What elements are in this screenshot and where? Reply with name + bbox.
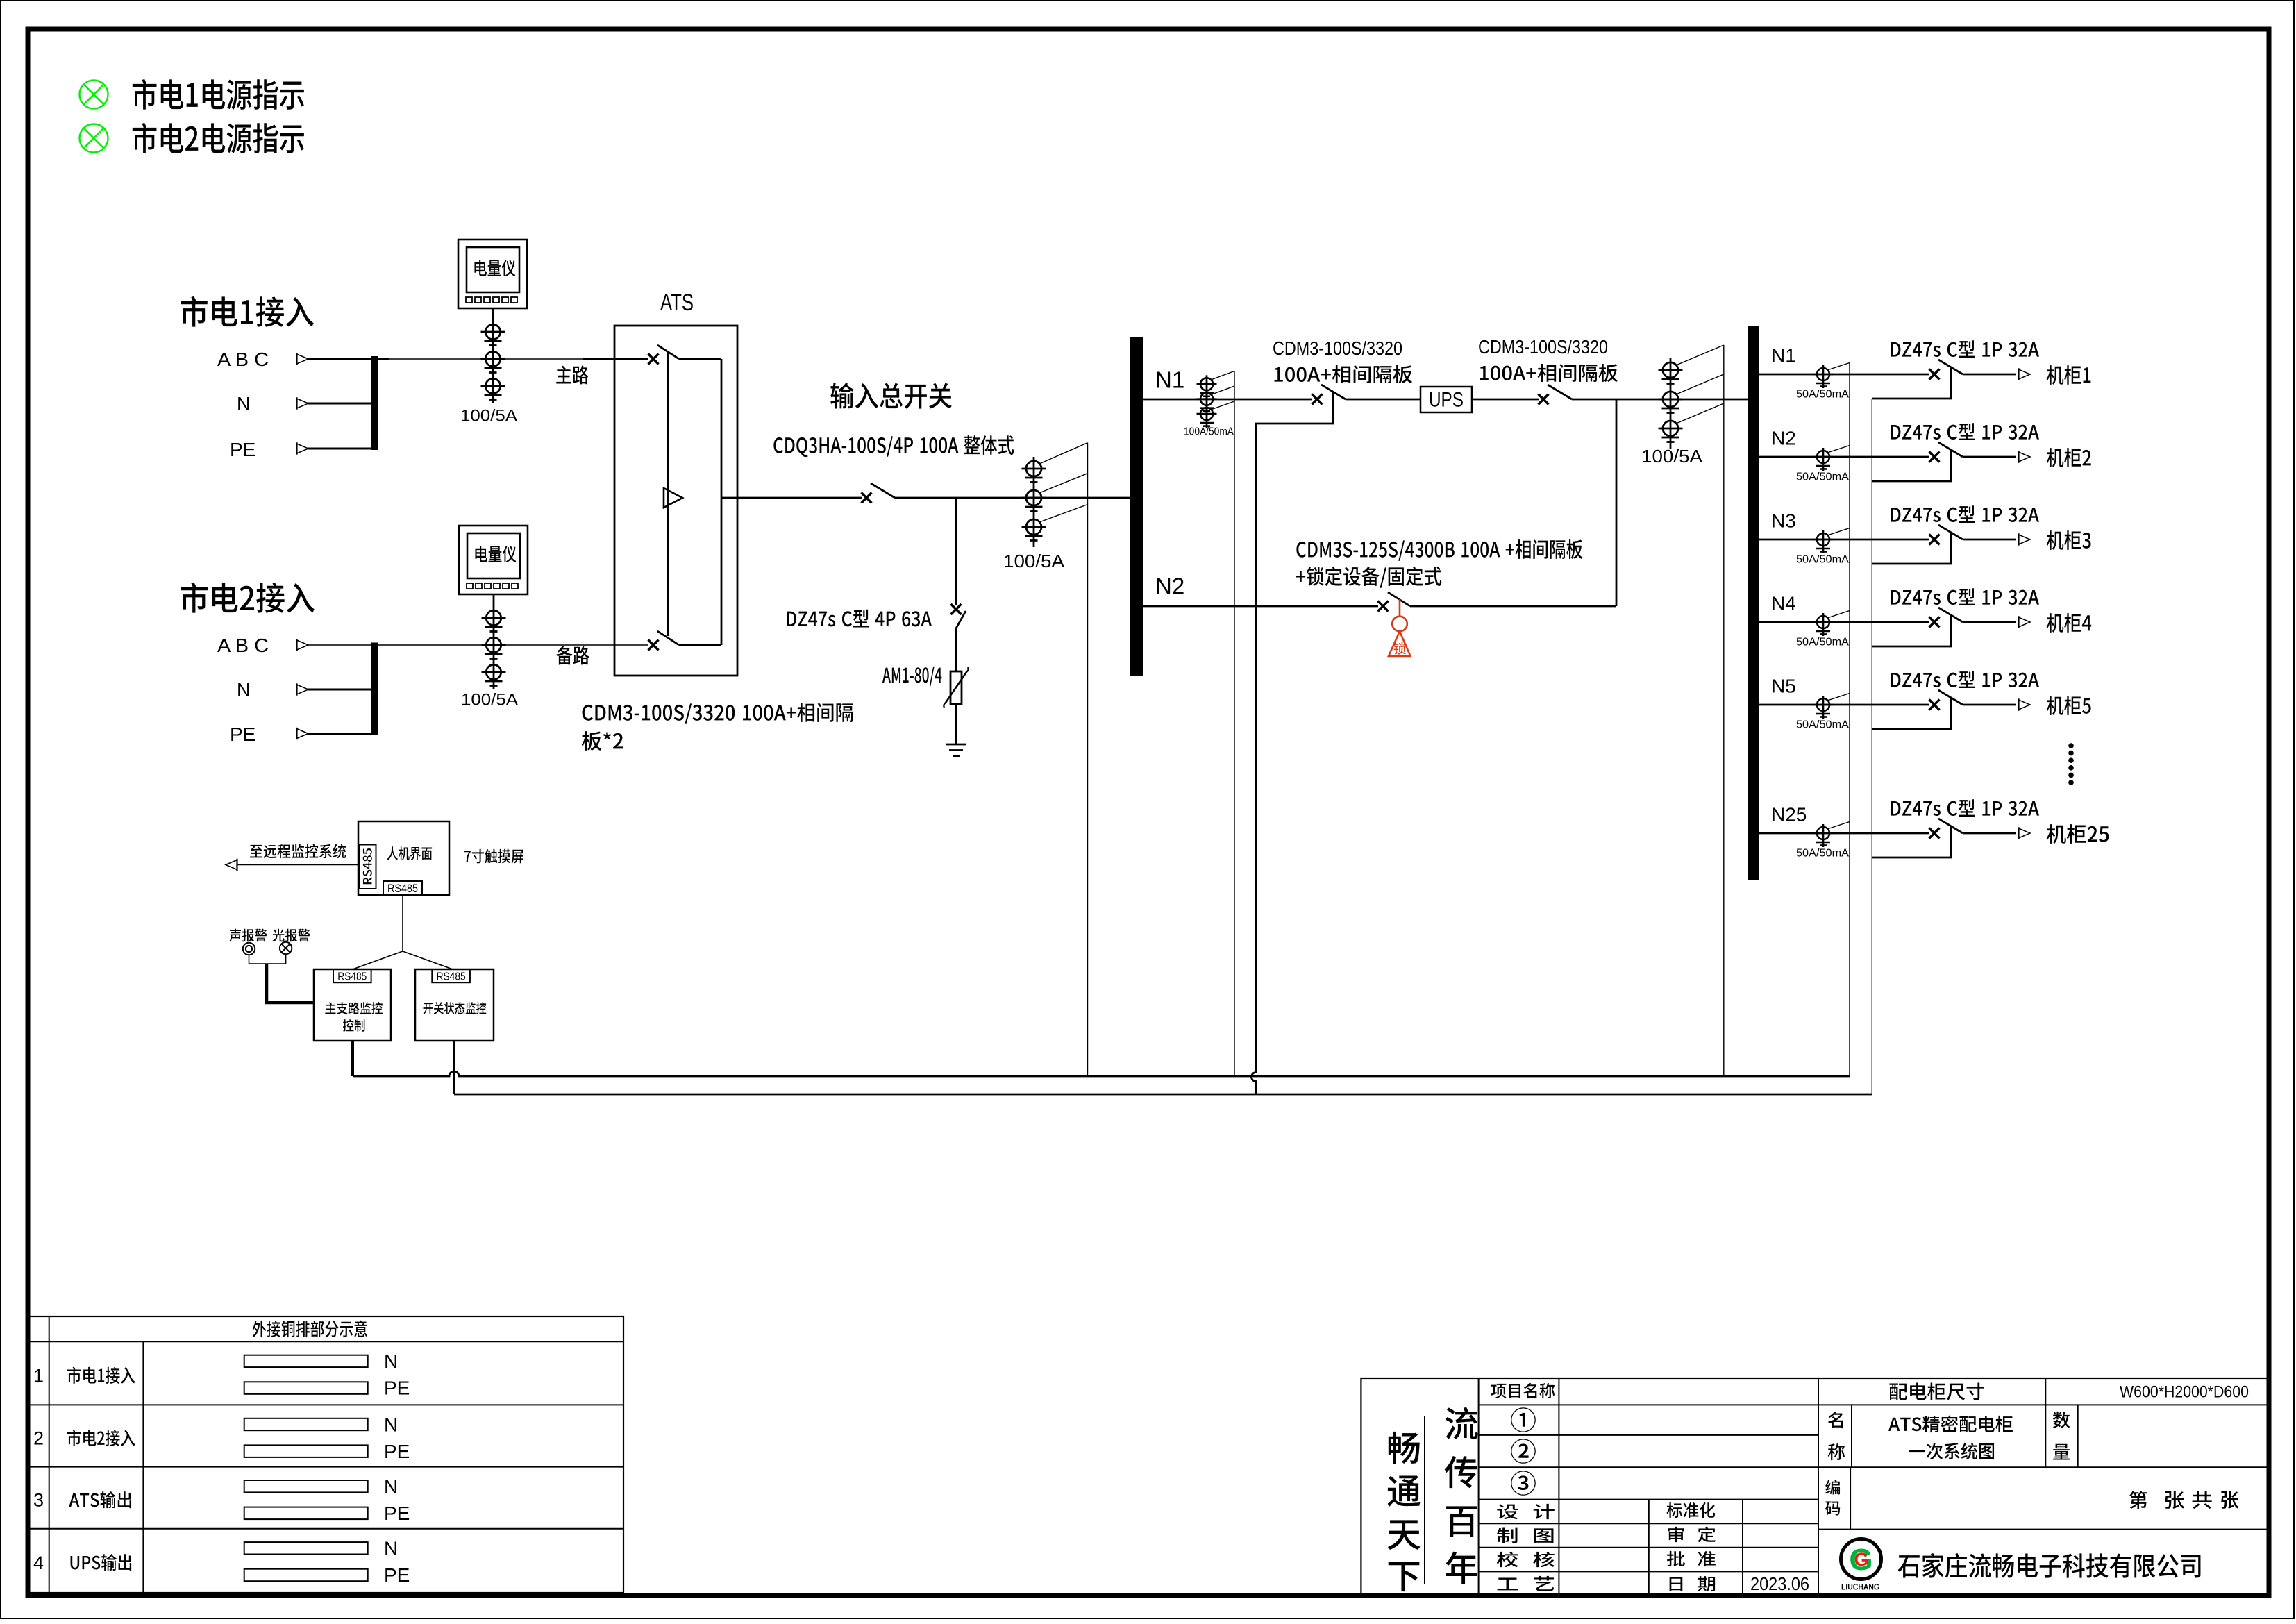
- power meter PM2: [459, 526, 528, 594]
- label TA5 100/5A: [1641, 446, 1703, 467]
- wire mains-2 to ATS: [378, 644, 648, 646]
- arrow branch N25 out: [2019, 827, 2031, 839]
- label branch N5: [1771, 675, 1796, 696]
- wire TA4 secondary down: [1234, 371, 1235, 1077]
- label mains-2 incoming: [181, 583, 315, 613]
- CT group TA4 100A/50mA: [1197, 375, 1217, 428]
- switch status monitor box: [415, 969, 494, 1041]
- bus bar section 1: [1130, 337, 1143, 676]
- wire sound alarm stem: [249, 955, 250, 964]
- label main input switch: [830, 383, 952, 408]
- CT TA3 secondary taps: [1039, 443, 1088, 522]
- table row label ATS输出: [69, 1491, 131, 1508]
- title vline size divider: [2045, 1378, 2046, 1405]
- svg-text:1: 1: [33, 1365, 44, 1386]
- copper bar N row 4: [244, 1542, 368, 1554]
- wire monitoring bus line2: [454, 1094, 1872, 1096]
- label RS485 monitor-1: [337, 971, 367, 982]
- RCBO CT branch N2 50A/50mA: [1813, 448, 1834, 471]
- label N input-1: [237, 394, 251, 415]
- CT tap branch N25: [1827, 822, 1850, 830]
- table copper-bar outer: [28, 1316, 623, 1593]
- svg-text:100/5A: 100/5A: [1641, 446, 1703, 467]
- light alarm symbol: [280, 942, 292, 954]
- wire branch N1: [1759, 374, 1929, 376]
- wire TA5 secondary down: [1723, 345, 1725, 1076]
- arrow to remote monitoring: [226, 859, 237, 871]
- label power meter PM1: [474, 260, 515, 276]
- label date value: [1750, 1573, 1809, 1594]
- table row number 2: [33, 1428, 44, 1449]
- wire mains-1 main segment: [583, 358, 648, 360]
- label light alarm: [273, 929, 310, 942]
- label cabinet 机柜4: [2047, 613, 2092, 633]
- wire branch N3 status drop: [1872, 533, 1951, 564]
- label mains-1 power indicator: [133, 79, 304, 110]
- label PE row 3: [384, 1502, 410, 1524]
- wire N2 line: [1143, 605, 1378, 608]
- label 50A/50mA branch N1: [1796, 389, 1849, 401]
- label cabinet 机柜5: [2047, 696, 2091, 715]
- label ATS cabinet line1: [1888, 1416, 2013, 1432]
- label circled 2: [1511, 1439, 1536, 1464]
- table header label: [253, 1321, 367, 1337]
- svg-text:N5: N5: [1771, 675, 1796, 696]
- svg-text:N2: N2: [1771, 427, 1796, 449]
- ATS switch backup: [648, 631, 722, 651]
- svg-text:N1: N1: [1771, 344, 1796, 366]
- svg-text:ATS: ATS: [660, 290, 694, 316]
- label main path: [556, 366, 588, 385]
- wire N1 feed: [1143, 399, 1312, 401]
- breaker QF N2 CDM3S: [1378, 592, 1411, 612]
- label branch N3: [1771, 510, 1796, 531]
- CT tap branch N1: [1827, 363, 1850, 371]
- svg-text:N: N: [237, 394, 251, 415]
- RCBO CT branch N4 50A/50mA: [1813, 613, 1834, 636]
- RS485 port box bottom: [383, 881, 422, 895]
- table col1 divider: [49, 1316, 50, 1593]
- breaker QF UPS-out CDM3: [1539, 385, 1573, 405]
- title vline right section: [1818, 1378, 1819, 1596]
- label mains-1 incoming: [181, 296, 314, 327]
- label CDM3 breakers in ATS line1: [583, 703, 853, 724]
- title hline draw: [1479, 1547, 1818, 1548]
- table row label UPS输出: [71, 1554, 132, 1571]
- wire branch N4: [1759, 621, 1929, 623]
- svg-text:A B C: A B C: [217, 635, 269, 656]
- label 50A/50mA branch N3: [1796, 554, 1849, 566]
- CT group TA2 100/5A: [482, 610, 506, 689]
- svg-text:50A/50mA: 50A/50mA: [1796, 637, 1849, 648]
- ATS box: [614, 326, 737, 676]
- arrow branch N2 out: [2019, 451, 2031, 462]
- label quantity: [2053, 1412, 2070, 1460]
- wire PE input-2: [308, 733, 375, 735]
- label ATS: [660, 290, 694, 316]
- terminal arrow N input-2: [297, 683, 309, 695]
- CT tap branch N3: [1827, 528, 1850, 536]
- CT TA4 secondary taps: [1211, 371, 1234, 410]
- svg-text:50A/50mA: 50A/50mA: [1796, 554, 1849, 566]
- svg-text:50A/50mA: 50A/50mA: [1796, 389, 1849, 401]
- lock device symbol: [1389, 599, 1411, 656]
- title hline r3: [1479, 1466, 2269, 1468]
- label AM1-80/4: [882, 667, 941, 686]
- calligraphy column 1: [1388, 1432, 1421, 1591]
- svg-text:100/5A: 100/5A: [1003, 551, 1065, 571]
- label PE input-2: [230, 723, 255, 745]
- svg-text:N1: N1: [1155, 367, 1184, 393]
- ATS inner right rail: [721, 359, 723, 645]
- wire UPS output: [1472, 399, 1539, 401]
- svg-text:CDM3-100S/3320: CDM3-100S/3320: [1478, 336, 1608, 358]
- RS485 port box monitor-1: [333, 969, 371, 982]
- title hline r1: [1479, 1404, 2269, 1405]
- wire branch status collector: [1871, 399, 1872, 1094]
- label RS485 left: [363, 848, 372, 884]
- wire branch N25 status drop: [1872, 827, 1951, 857]
- copper bar N row 3: [244, 1480, 368, 1492]
- title hline check: [1479, 1571, 1818, 1572]
- label company name: [1898, 1553, 2201, 1578]
- wire HMI fork right: [403, 951, 453, 969]
- calligraphy divider: [1424, 1416, 1425, 1584]
- svg-text:50A/50mA: 50A/50mA: [1796, 719, 1849, 731]
- CT tap branch N2: [1827, 446, 1850, 453]
- wire arrester to ground: [955, 704, 957, 744]
- calligraphy column 2: [1445, 1407, 1478, 1584]
- label check: [1497, 1552, 1555, 1567]
- table header divider: [28, 1341, 623, 1342]
- wire monitoring bus line1: [353, 1071, 1850, 1076]
- breaker DZ47s branch N5: [1929, 690, 1963, 710]
- svg-text:N2: N2: [1155, 574, 1184, 599]
- wire PE input-1: [308, 448, 375, 450]
- label bus N2: [1155, 574, 1184, 599]
- wire branch CT collector: [1849, 363, 1850, 1077]
- breaker DZ47s branch N3: [1929, 525, 1963, 545]
- label sound alarm: [229, 929, 267, 942]
- label UPS: [1429, 389, 1464, 412]
- label CDM3 out line2: [1480, 364, 1618, 382]
- CT group TA3 100/5A on main: [1022, 457, 1046, 547]
- label CDQ3HA-100S/4P 100A: [773, 435, 1014, 457]
- CT TA5 secondary taps: [1676, 345, 1724, 424]
- table row divider: [28, 1404, 623, 1405]
- RCBO CT branch N25 50A/50mA: [1813, 824, 1834, 847]
- title vline calligraphy right: [1478, 1378, 1480, 1596]
- wire branch N5: [1759, 704, 1929, 706]
- wire branch N4 status drop: [1872, 616, 1951, 646]
- label CDM3 breakers in ATS line2: [582, 731, 623, 751]
- title block outer: [1361, 1378, 2269, 1596]
- svg-text:CDM3-100S/3320: CDM3-100S/3320: [1273, 337, 1402, 359]
- svg-text:G: G: [1854, 1549, 1868, 1570]
- surge arrester FV AM1-80/4: [944, 667, 968, 708]
- ground symbol: [946, 744, 966, 756]
- label CDM3S-125S/4300B line1: [1296, 539, 1582, 561]
- title hline r4-left: [1479, 1499, 1818, 1500]
- breaker DZ47s branch N25: [1929, 819, 1963, 839]
- label RS485 bottom: [387, 882, 418, 895]
- CT tap branch N4: [1827, 611, 1850, 619]
- label bus N1: [1155, 367, 1184, 393]
- label TA2 100/5A: [461, 691, 518, 710]
- svg-text:100/5A: 100/5A: [461, 691, 518, 710]
- label power meter PM2: [475, 546, 516, 562]
- title vline name col: [1851, 1405, 1852, 1467]
- label standardize: [1666, 1502, 1715, 1518]
- svg-text:RS485: RS485: [387, 882, 418, 895]
- label circled 3: [1511, 1471, 1536, 1496]
- wire HMI down: [402, 895, 403, 951]
- label main branch monitoring line1: [325, 1002, 383, 1014]
- wire branch N2 status drop: [1872, 451, 1951, 481]
- label DZ47s C 1P 32A branch N3: [1891, 505, 2039, 523]
- label to remote monitoring system: [250, 844, 346, 859]
- company logo: [1841, 1539, 1882, 1592]
- label cabinet 机柜25: [2047, 824, 2109, 844]
- label circled 1: [1511, 1407, 1536, 1432]
- label mains-2 power indicator: [133, 123, 304, 153]
- wire branch N2 out: [1963, 456, 2016, 458]
- RS485 port box left: [360, 845, 376, 889]
- wire to surge arrester: [955, 628, 957, 671]
- svg-text:PE: PE: [384, 1502, 410, 1524]
- breaker DZ47s branch N4: [1929, 608, 1963, 628]
- label DZ47s C 4P 63A: [787, 610, 932, 628]
- svg-text:50A/50mA: 50A/50mA: [1796, 848, 1849, 860]
- terminal arrow PE input-2: [297, 728, 309, 739]
- title vline std val col: [1742, 1500, 1743, 1596]
- wire N input-2: [308, 689, 375, 691]
- wire N1-feed to UPS: [1346, 399, 1421, 401]
- label CDM3-100S/3320 out line1: [1478, 336, 1608, 358]
- CT tap branch N5: [1827, 694, 1850, 701]
- label DZ47s C 1P 32A branch N2: [1891, 423, 2039, 440]
- title vline label col: [1558, 1378, 1559, 1596]
- label date: [1670, 1576, 1715, 1591]
- sound alarm symbol: [243, 943, 255, 955]
- svg-text:N4: N4: [1771, 592, 1796, 614]
- breaker QF surge DZ47s: [951, 604, 966, 628]
- label approve: [1667, 1551, 1716, 1566]
- label main branch monitoring line2: [343, 1019, 364, 1032]
- copper bar N row 1: [244, 1355, 368, 1367]
- RCBO CT branch N1 50A/50mA: [1813, 365, 1834, 388]
- svg-text:A B C: A B C: [217, 349, 269, 370]
- label sheet numbering: [2129, 1491, 2238, 1509]
- wire branch N1 status drop: [1872, 368, 1951, 399]
- wire ATS output: [721, 497, 862, 499]
- svg-text:RS485: RS485: [437, 971, 466, 982]
- wire to remote monitoring: [234, 864, 358, 866]
- label cabinet 机柜2: [2047, 448, 2091, 467]
- title vline std col: [1648, 1500, 1650, 1596]
- label branch N25: [1771, 803, 1807, 825]
- copper bar PE row 1: [244, 1382, 368, 1394]
- ellipsis dots branches: [2068, 743, 2074, 785]
- label TA1 100/5A: [460, 407, 517, 426]
- svg-text:N25: N25: [1771, 803, 1807, 825]
- label 7 inch touchscreen: [464, 849, 523, 864]
- table row divider: [28, 1528, 623, 1530]
- arrow branch N1 out: [2019, 368, 2031, 380]
- CT group TA5 100/5A: [1659, 358, 1683, 449]
- ATS switch main: [648, 345, 722, 365]
- ATS transfer arrow: [664, 488, 682, 508]
- bus bar section 2: [1748, 326, 1759, 880]
- svg-text:PE: PE: [230, 439, 255, 460]
- svg-text:100A/50mA: 100A/50mA: [1184, 426, 1234, 438]
- terminal arrow N input-1: [297, 397, 309, 409]
- table row divider: [28, 1466, 623, 1468]
- breaker DZ47s branch N2: [1929, 442, 1963, 462]
- label cabinet 机柜3: [2047, 530, 2091, 550]
- label PE row 1: [384, 1378, 410, 1399]
- wire TA3 secondary down: [1087, 443, 1089, 1076]
- terminal arrow A B C input-2: [297, 639, 309, 651]
- breaker QF N1-feed CDM3: [1312, 385, 1346, 405]
- table row label 市电1接入: [67, 1367, 135, 1384]
- label ATS cabinet line2: [1909, 1443, 1994, 1459]
- title vline qty col-l: [2045, 1405, 2046, 1467]
- ATS inner left rail: [667, 352, 669, 636]
- svg-text:N3: N3: [1771, 510, 1796, 531]
- title hline r2-left: [1479, 1434, 1818, 1436]
- svg-text:N: N: [384, 1350, 398, 1372]
- wire branch N2: [1759, 456, 1929, 458]
- svg-text:W600*H2000*D600: W600*H2000*D600: [2120, 1383, 2249, 1402]
- wire HMI fork left: [353, 951, 403, 969]
- wire alarm to monitor thick: [267, 964, 314, 1003]
- label 50A/50mA branch N25: [1796, 848, 1849, 860]
- terminal bar input-1: [371, 356, 378, 450]
- label DZ47s C 1P 32A branch N5: [1891, 671, 2039, 688]
- svg-text:LIUCHANG: LIUCHANG: [1841, 1582, 1879, 1591]
- svg-text:2023.06: 2023.06: [1750, 1573, 1809, 1594]
- wire UPS-out to bus2: [1572, 399, 1748, 401]
- svg-text:50A/50mA: 50A/50mA: [1796, 471, 1849, 483]
- wire junction drop to N2: [1616, 399, 1618, 606]
- label backup path: [557, 646, 589, 664]
- UPS box: [1421, 387, 1472, 412]
- label branch N2: [1771, 427, 1796, 449]
- label switch status monitoring: [424, 1002, 487, 1014]
- label PE row 2: [384, 1441, 410, 1462]
- svg-text:100/5A: 100/5A: [460, 407, 517, 426]
- label 50A/50mA branch N2: [1796, 471, 1849, 483]
- wire branch N25: [1759, 832, 1929, 835]
- wire N input-1: [308, 403, 375, 405]
- breaker QF main input: [862, 483, 896, 503]
- table row number 1: [33, 1365, 44, 1386]
- breaker DZ47s branch N1: [1929, 360, 1963, 380]
- label PE row 4: [384, 1564, 410, 1586]
- svg-text:N: N: [384, 1414, 398, 1435]
- label craft: [1498, 1576, 1554, 1591]
- wire ABC input-1: [308, 358, 389, 360]
- svg-text:PE: PE: [230, 723, 255, 745]
- svg-text:PE: PE: [384, 1441, 410, 1462]
- label HMI: [387, 846, 433, 860]
- label CDM3 feed line2: [1274, 365, 1412, 383]
- HMI box: [358, 821, 449, 895]
- lamp HL1 mains-1 power indicator: [80, 81, 108, 109]
- label branch N4: [1771, 592, 1796, 614]
- svg-text:PE: PE: [384, 1564, 410, 1586]
- svg-text:3: 3: [33, 1490, 44, 1511]
- label N row 2: [384, 1414, 398, 1435]
- label phases A B C input-1: [217, 349, 269, 370]
- label name col: [1828, 1412, 1845, 1460]
- svg-text:RS485: RS485: [337, 971, 367, 982]
- table row label 市电2接入: [67, 1430, 135, 1446]
- label DZ47s C 1P 32A branch N4: [1891, 588, 2039, 605]
- label CDM3S-125S/4300B line2: [1296, 567, 1441, 588]
- label cabinet size header: [1889, 1382, 1984, 1400]
- wire N1-feed status drop: [1252, 392, 1333, 1094]
- arrow branch N4 out: [2019, 616, 2031, 628]
- RCBO CT branch N3 50A/50mA: [1813, 530, 1834, 553]
- label TA3 100/5A: [1003, 551, 1065, 571]
- svg-text:4: 4: [33, 1552, 44, 1573]
- label design: [1497, 1504, 1554, 1519]
- wire branch N1 out: [1963, 374, 2016, 376]
- table row number 4: [33, 1552, 44, 1573]
- copper bar PE row 4: [244, 1569, 368, 1582]
- svg-text:N: N: [384, 1538, 398, 1559]
- lamp HL2 mains-2 power indicator: [80, 124, 108, 153]
- wire branch N3: [1759, 539, 1929, 541]
- label 50A/50mA branch N4: [1796, 637, 1849, 648]
- wire after main breaker: [895, 497, 1130, 499]
- label W600*H2000*D600: [2120, 1383, 2249, 1402]
- wire meter-1 stem: [492, 308, 494, 324]
- label N row 4: [384, 1538, 398, 1559]
- wire branch N5 status drop: [1872, 698, 1951, 729]
- table row number 3: [33, 1490, 44, 1511]
- main branch monitor box: [314, 969, 391, 1041]
- arrow branch N3 out: [2019, 533, 2031, 545]
- copper bar PE row 2: [244, 1445, 368, 1457]
- wire monitor-1 stub: [351, 1041, 354, 1076]
- svg-text:UPS: UPS: [1429, 389, 1464, 412]
- svg-text:N: N: [237, 680, 251, 701]
- label N row 1: [384, 1350, 398, 1372]
- terminal bar input-2: [371, 643, 378, 736]
- label CDM3-100S/3320 feed line1: [1273, 337, 1402, 359]
- label review: [1668, 1527, 1716, 1543]
- title hline sheet row: [1818, 1529, 2269, 1530]
- wire surge branch drop: [955, 498, 957, 605]
- label 50A/50mA branch N5: [1796, 719, 1849, 731]
- svg-text:PE: PE: [384, 1378, 410, 1399]
- title vline code col: [1850, 1467, 1851, 1529]
- label phases A B C input-2: [217, 635, 269, 656]
- label branch N1: [1771, 344, 1796, 366]
- svg-text:2: 2: [33, 1428, 44, 1449]
- label code col: [1825, 1480, 1840, 1515]
- wire light alarm stem: [285, 954, 287, 964]
- terminal arrow PE input-1: [297, 442, 309, 454]
- RS485 port box monitor-2: [432, 969, 470, 982]
- label RS485 monitor-2: [437, 971, 466, 982]
- wire monitor-2 stub: [453, 1041, 455, 1094]
- label N input-2: [237, 680, 251, 701]
- wire branch N3 out: [1963, 539, 2016, 541]
